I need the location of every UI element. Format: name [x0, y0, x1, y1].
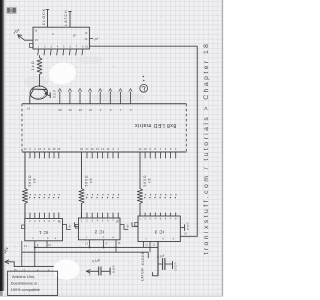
IC3 MR pin bar — [180, 227, 184, 229]
svg-text:23: 23 — [79, 108, 83, 112]
ground bar Q1 — [49, 92, 51, 98]
dark scan strip left edge — [0, 0, 3, 291]
page right edge — [222, 0, 224, 296]
IC3 bottom pin drops — [143, 242, 145, 248]
capacitor C2 0.1uF — [158, 263, 162, 265]
svg-text:560Ω: 560Ω — [28, 175, 32, 187]
svg-text:15: 15 — [52, 147, 56, 151]
svg-text:12: 12 — [138, 147, 142, 151]
svg-text:IC 3: IC 3 — [154, 229, 164, 234]
svg-text:IC 1: IC 1 — [39, 230, 49, 235]
svg-text:11: 11 — [48, 147, 51, 151]
svg-text:tronixstuff.com / tutorials >: tronixstuff.com / tutorials > Chapter 18 — [203, 42, 210, 255]
+5V arrow bottom-left — [5, 262, 14, 267]
IC4 +5V pin right — [89, 38, 93, 40]
svg-text:13: 13 — [22, 268, 25, 272]
wire IC1 Q7 to IC2 data — [63, 225, 71, 230]
svg-text:1F: 1F — [73, 34, 77, 38]
svg-text:CLOCK: CLOCK — [42, 8, 46, 25]
svg-text:Duemilanove or: Duemilanove or — [11, 281, 38, 285]
svg-text:1kΩ: 1kΩ — [31, 60, 35, 70]
svg-text:14: 14 — [101, 147, 105, 151]
svg-text:D: D — [54, 95, 56, 99]
IC 3 left notch pin — [135, 223, 138, 227]
note box arduino — [8, 271, 58, 295]
matrix left edge dashed — [21, 104, 23, 152]
clock bus line — [35, 246, 158, 248]
svg-text:13: 13 — [23, 147, 27, 151]
svg-text:LATCH: LATCH — [64, 9, 68, 25]
svg-text:15: 15 — [96, 147, 100, 151]
svg-text:LATCH: LATCH — [141, 268, 145, 281]
svg-text:24: 24 — [69, 108, 73, 112]
IC 1 left notch pin — [22, 225, 25, 229]
matrix bottom edge — [22, 151, 186, 153]
svg-text:10: 10 — [144, 147, 148, 151]
8x8 LED matrix box top edge — [22, 103, 186, 105]
svg-text:x8: x8 — [33, 178, 37, 183]
paper noise — [75, 46, 76, 47]
IC 3 top pins — [139, 213, 141, 216]
ground bar C2 — [172, 261, 174, 269]
svg-text:D: D — [187, 228, 189, 231]
wire Q1 emitter to ground — [48, 94, 50, 96]
matrix right edge dashed — [185, 104, 187, 152]
svg-text:Arduino Uno,: Arduino Uno, — [12, 274, 35, 279]
svg-text:13: 13 — [106, 147, 110, 151]
repeat dots bank 2 — [87, 194, 88, 195]
IC4 pin 11 wire to CLOCK — [47, 10, 49, 28]
IC4 output pin stubs — [37, 49, 40, 55]
resistor R1 1k — [39, 55, 41, 57]
IC1 bottom pin drops — [21, 241, 23, 267]
svg-text:560Ω: 560Ω — [85, 175, 89, 187]
IC 2 74HC595 — [79, 218, 121, 240]
resistor 560R bank 1 — [22, 189, 27, 204]
IC2 bottom pin drops — [89, 240, 91, 248]
IC 1 top pins — [24, 213, 26, 219]
svg-text:560Ω: 560Ω — [143, 175, 147, 187]
ground bar C1 — [109, 268, 111, 275]
resistor 560R bank 3 — [137, 189, 142, 204]
IC 2 left notch pin — [75, 225, 78, 229]
IC 1 74HC595 — [25, 219, 63, 241]
whiteout blob 2 — [53, 259, 79, 279]
wire IC2 Q7 to IC3 data — [120, 225, 128, 230]
wire IC4 pin10 to IC3 pin10 — [89, 46, 197, 236]
svg-text:10: 10 — [38, 147, 42, 151]
IC 3 74HC595 — [138, 216, 180, 242]
svg-text:x8: x8 — [89, 178, 93, 183]
svg-text:100% compatible: 100% compatible — [11, 288, 40, 292]
paper smudges — [92, 92, 144, 102]
svg-text:16: 16 — [91, 147, 95, 151]
IC4 pin 12 wire to LATCH — [69, 12, 71, 28]
svg-text:17: 17 — [85, 147, 89, 151]
repeat dots bank 3 — [145, 194, 146, 195]
5V rail line — [14, 266, 56, 268]
svg-text:CLOCK: CLOCK — [141, 251, 145, 265]
resistor bank 2 column wire — [81, 152, 83, 189]
resistor bank 3 column wire — [139, 152, 141, 189]
matrix row pins top — [59, 92, 61, 104]
repeat dots bank 1 — [30, 194, 31, 195]
svg-text:IC 2: IC 2 — [94, 230, 104, 235]
svg-text:18: 18 — [80, 147, 84, 151]
IC4 pin 8 notch — [30, 43, 33, 47]
resistor bank 1 column wire — [24, 152, 26, 189]
resistor 560R bank 2 — [79, 189, 84, 204]
svg-text:D: D — [174, 267, 176, 271]
svg-text:21: 21 — [89, 108, 93, 112]
transistor Q1 — [29, 85, 48, 100]
scan stamp top-left — [6, 7, 16, 14]
whiteout blob — [47, 60, 78, 87]
svg-text:16: 16 — [57, 147, 61, 151]
latch bus line — [22, 251, 149, 253]
graph paper background — [0, 0, 231, 300]
circled note doodle — [140, 84, 148, 92]
svg-text:8x8 LED matrix: 8x8 LED matrix — [135, 122, 177, 128]
svg-text:26: 26 — [59, 108, 63, 112]
capacitor C1 0.1uF with arrow — [86, 270, 90, 274]
svg-text:D: D — [113, 270, 115, 274]
IC4 pin 16 wire to +5V — [18, 35, 33, 40]
IC4 74HC595 top shift register — [33, 27, 89, 49]
wire R1 to Q1 base — [39, 75, 41, 87]
svg-text:x8: x8 — [148, 178, 152, 183]
IC 2 top pins — [81, 213, 83, 218]
